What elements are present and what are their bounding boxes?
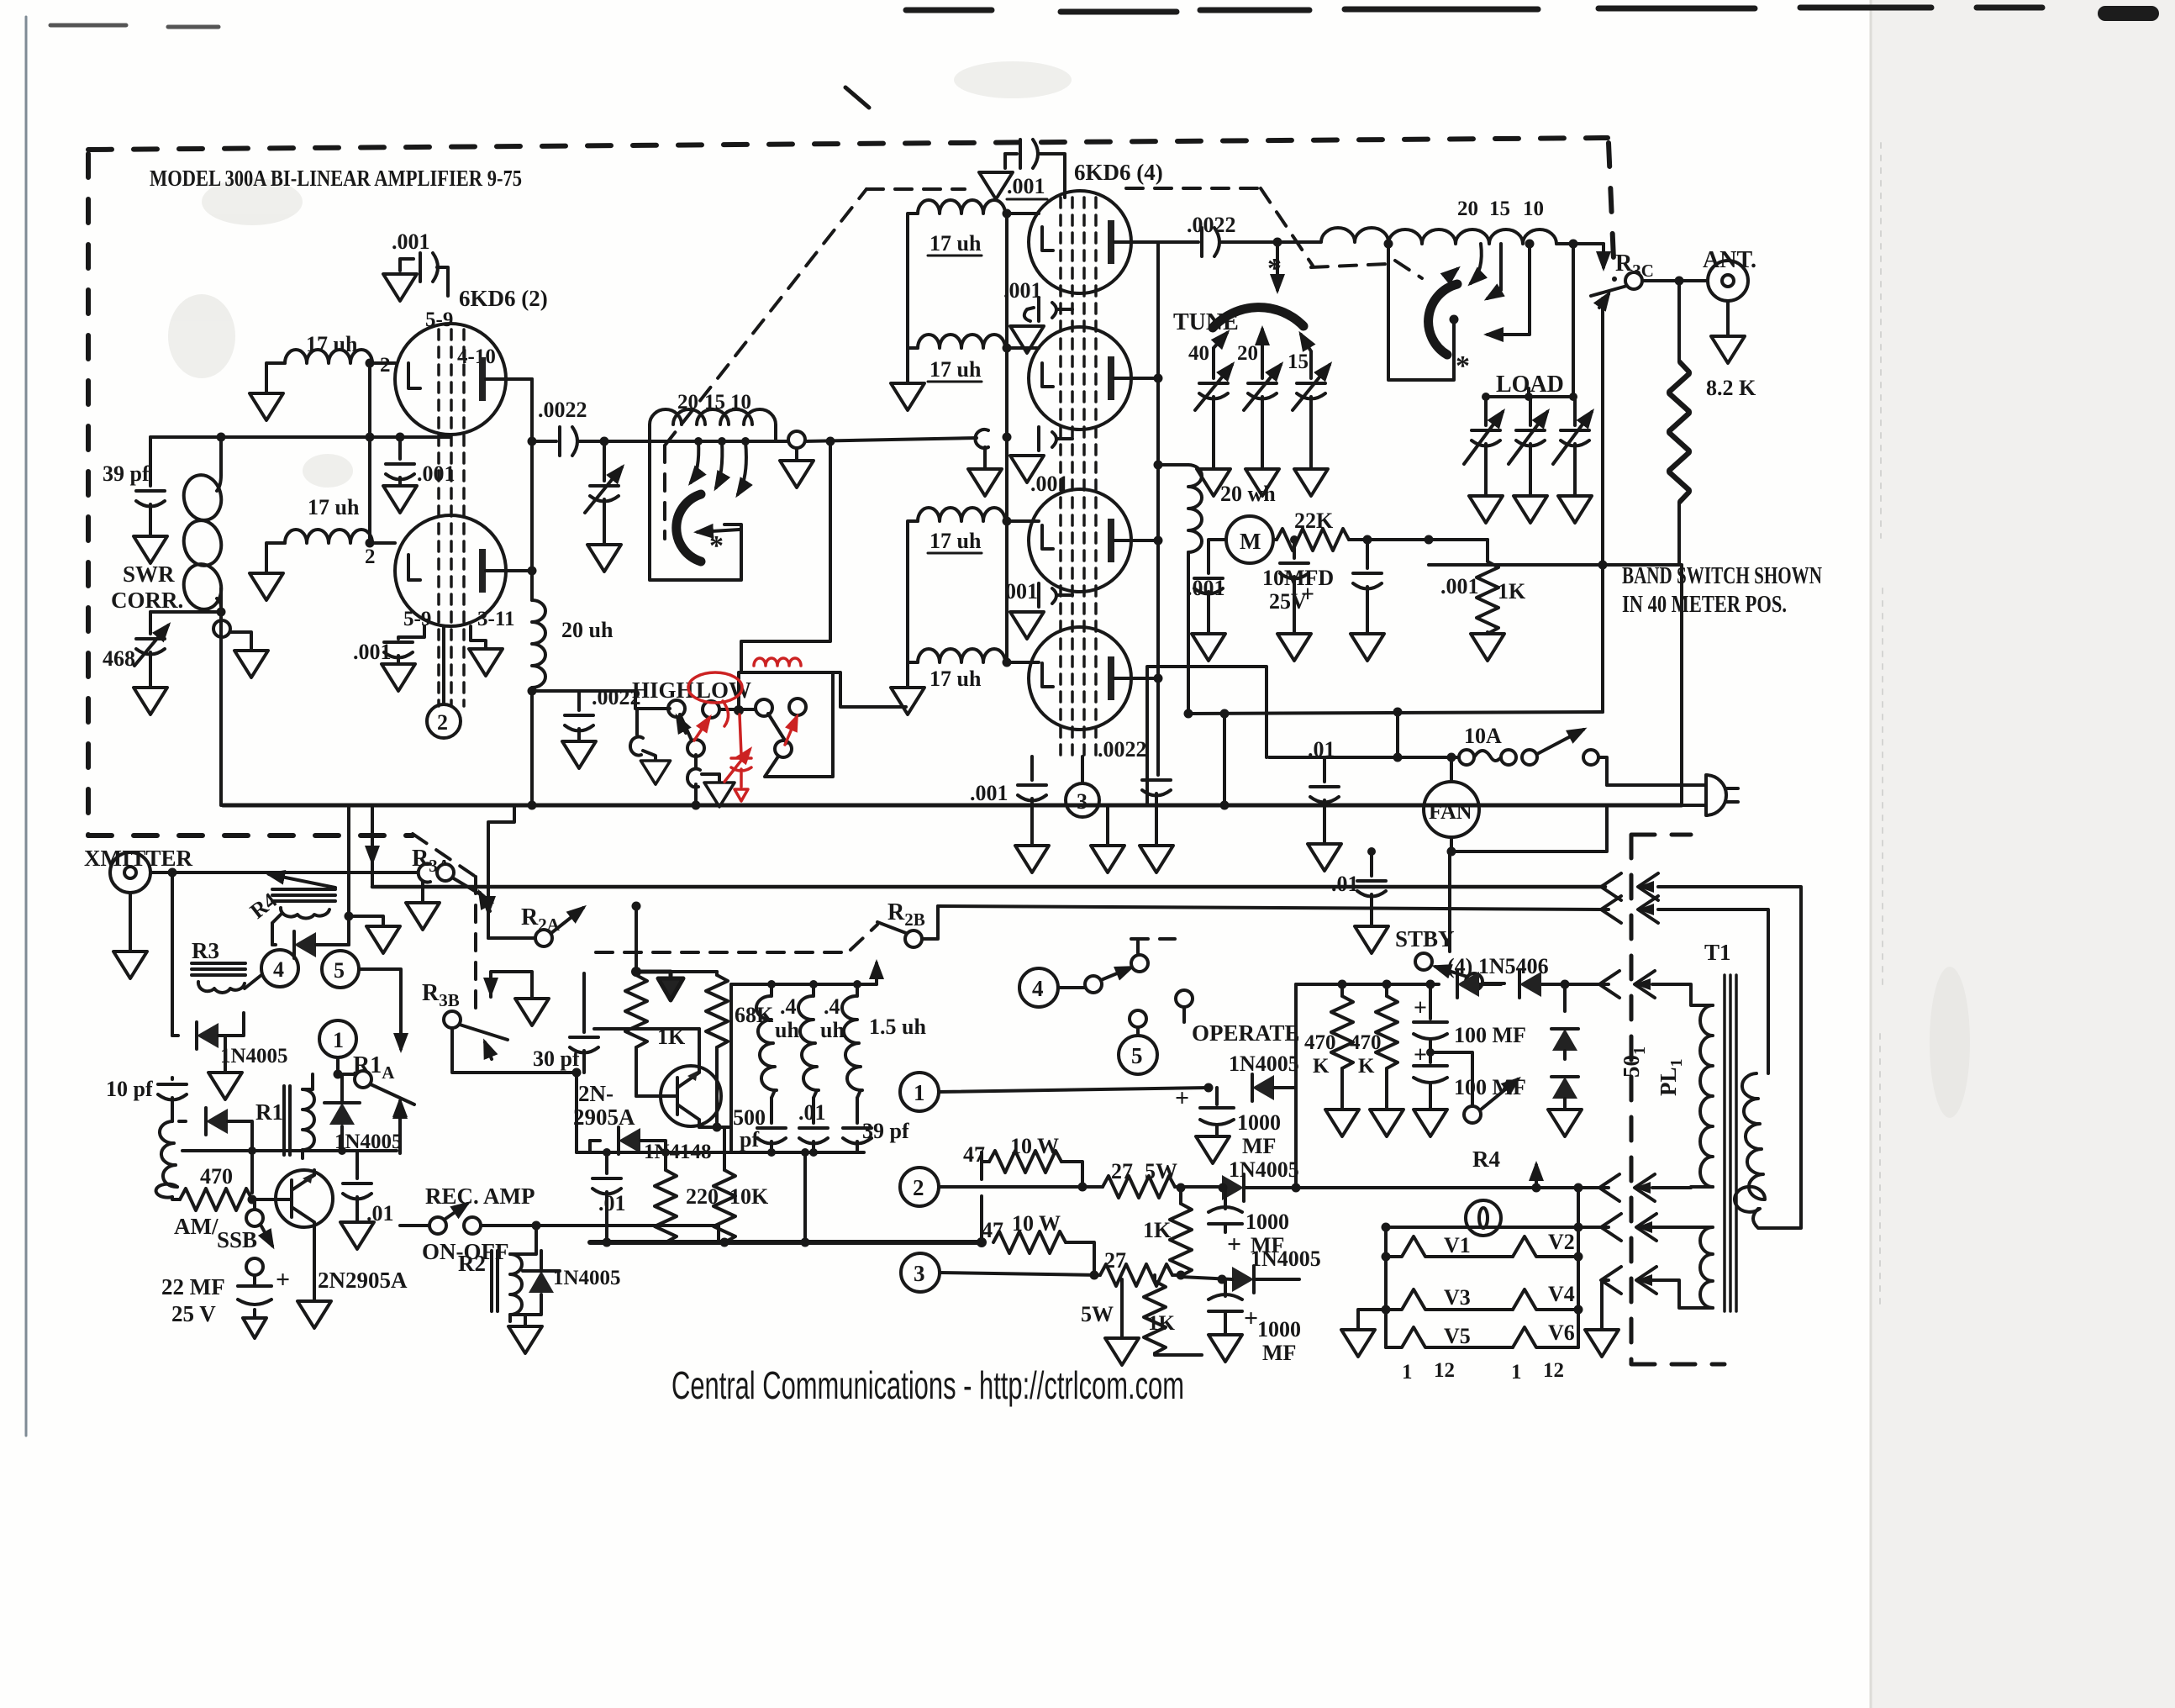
resistor 27 5W (line 3) (1081, 1248, 1181, 1326)
transistor 2N2905A (osc) (573, 1029, 721, 1130)
svg-text:3: 3 (1077, 789, 1087, 814)
pin circle 2 (socket) (900, 1168, 1082, 1206)
ground (.01 line b) (1355, 926, 1388, 953)
red annotation: arrow to contact4 (785, 717, 797, 745)
wiper output curl (687, 755, 719, 805)
SWR pot contact (213, 620, 251, 649)
svg-text:V4: V4 (1548, 1282, 1575, 1306)
ground (R4 node) (349, 916, 400, 953)
variable capacitor TUNE 20 (1244, 329, 1281, 467)
HV line to right (1188, 712, 1603, 714)
relay switch R2A (488, 908, 583, 946)
svg-text:1N4005: 1N4005 (220, 1045, 288, 1067)
T1 heater winding (1652, 1227, 1713, 1308)
capacitor .001 (screen bc) w/ hook (1030, 427, 1072, 496)
svg-text:3: 3 (914, 1261, 925, 1286)
pot R4 (bias adj) (1430, 1052, 1536, 1188)
svg-text:5W: 5W (1081, 1302, 1114, 1326)
capacitor 001 (screen cd) w/ hook (1005, 579, 1072, 607)
ground (curl NC) (640, 761, 670, 784)
svg-text:15: 15 (704, 391, 725, 414)
svg-text:PL1: PL1 (1656, 1058, 1686, 1096)
capacitor .0022 coupling (532, 398, 650, 456)
resistor 68K (636, 972, 774, 1127)
svg-text:22K: 22K (1294, 509, 1334, 533)
ground (.01 keyer) (340, 1222, 374, 1249)
svg-text:MODEL 300A BI-LINEAR AMPLIFIER: MODEL 300A BI-LINEAR AMPLIFIER 9-75 (150, 166, 522, 191)
ground (.001 mid) (383, 486, 417, 513)
LOAD bus (1486, 244, 1573, 397)
svg-text:BAND SWITCH SHOWN: BAND SWITCH SHOWN (1622, 563, 1822, 589)
tank rotor wiper arc (1429, 284, 1457, 355)
svg-text:.001: .001 (1440, 574, 1479, 598)
svg-text:1N4005: 1N4005 (1229, 1157, 1299, 1182)
resistor 27 5W (line 2) (1082, 1159, 1225, 1198)
HIGH contact (668, 700, 685, 717)
ground (screen cd) (1010, 612, 1044, 639)
ground (LOAD 1) (1469, 496, 1503, 523)
plate bus vertical x=633 (530, 379, 534, 600)
relay switch R3C (1591, 272, 1708, 308)
resistor 1K (line 2) (1143, 1188, 1192, 1276)
resistor 1K (line 3) (1144, 1275, 1202, 1355)
capacitor 100MF (b) (1414, 1042, 1526, 1108)
wire bracket to line A (371, 805, 374, 887)
svg-text:K: K (1358, 1055, 1375, 1078)
svg-text:100 MF: 100 MF (1454, 1075, 1526, 1099)
grid bus vertical (1005, 213, 1009, 662)
svg-text:M: M (1240, 529, 1261, 554)
ground (1000MF line1) (1196, 1136, 1230, 1163)
diode 1N5406 (b) (1519, 971, 1541, 998)
svg-text:MF: MF (1242, 1134, 1276, 1158)
svg-text:.0022: .0022 (538, 398, 587, 422)
wire 8.2K bottom row (1429, 565, 1682, 805)
svg-text:.0022: .0022 (1098, 737, 1147, 762)
pin circle 3 (tube col) (1066, 756, 1099, 817)
ground (.0022 plate col) (1140, 846, 1173, 872)
inductor 17uh (grid c) (908, 508, 1039, 553)
scan artifact: faint smudges (168, 61, 1970, 1118)
diode 1N4005 (R3) (172, 1013, 288, 1067)
ground (heater return) (1585, 1280, 1619, 1357)
ground (TUNE 20) (1245, 469, 1279, 496)
svg-text:V1: V1 (1444, 1233, 1471, 1257)
svg-text:5: 5 (334, 958, 345, 983)
tube V1b 6KD6 (395, 515, 532, 626)
meter M (1209, 516, 1273, 565)
svg-text:Central Communications - http:: Central Communications - http://ctrlcom.… (671, 1363, 1184, 1407)
svg-text:R3: R3 (192, 938, 219, 963)
ground (.01 line a) (1308, 844, 1341, 871)
variable capacitor (driver tune) (585, 441, 622, 543)
svg-text:001: 001 (1005, 579, 1038, 604)
HIGH/LOW switch box top (741, 672, 906, 707)
resistor 47 10W (upper) (963, 1134, 1082, 1187)
tube V2b (1029, 327, 1158, 430)
pin circle 1 (socket) (900, 1073, 1209, 1111)
svg-text:.01: .01 (1331, 872, 1359, 896)
svg-text:468: 468 (103, 646, 135, 671)
svg-text:17 uh: 17 uh (930, 357, 982, 382)
tube grid dashed columns (V1a/V1b) (439, 329, 464, 706)
heater bank right rail (1577, 1227, 1580, 1347)
fan motor (1424, 757, 1479, 851)
svg-text:2: 2 (913, 1175, 924, 1200)
ground (ANT) (1711, 336, 1745, 363)
svg-text:3-11: 3-11 (477, 608, 514, 630)
pin circle 3 (socket) (901, 1253, 1100, 1292)
svg-text:12: 12 (1543, 1359, 1564, 1382)
capacitor 39pf (103, 437, 165, 535)
contact 4 (789, 698, 806, 715)
long line A (antenna relay common) (372, 885, 1605, 889)
node dot grid1 (366, 359, 375, 368)
ground (screen ab) (1010, 326, 1044, 353)
svg-text:FAN: FAN (1429, 799, 1472, 824)
svg-text:1000: 1000 (1257, 1317, 1301, 1342)
scan artifact: stray diagonal near top (845, 87, 869, 108)
ground (1K meter) (1471, 634, 1504, 661)
diode 1N5406 (a) (1457, 971, 1479, 998)
svg-text:+: + (1227, 1231, 1241, 1258)
resistor 470 (172, 1164, 254, 1210)
wire bus to R2A common (488, 805, 514, 938)
tube V2c (1029, 489, 1158, 592)
svg-text:10 pf: 10 pf (106, 1077, 153, 1101)
drive line curl contact (975, 430, 988, 448)
resistor 8.2K (1668, 281, 1756, 565)
svg-text:1000: 1000 (1237, 1110, 1281, 1135)
svg-text:HIGH: HIGH (632, 677, 694, 703)
tank tap arrows (1471, 244, 1482, 283)
svg-text:1N4005: 1N4005 (334, 1131, 403, 1153)
resistor 1K (osc) (625, 973, 686, 1096)
resistor 47 10W (lower) (982, 1211, 1094, 1275)
ground (468) (134, 688, 167, 714)
plate bus vertical (1156, 242, 1160, 775)
chevron pair (heater b) (1601, 1267, 1656, 1294)
svg-text:10: 10 (730, 391, 751, 414)
ground (39pf) (134, 536, 167, 563)
scan artifact: top edge marks (50, 8, 2151, 27)
svg-text:17 uh: 17 uh (930, 667, 982, 691)
AM/SSB switch (174, 1199, 272, 1252)
ground (driver tune cap) (587, 545, 621, 572)
capacitor .001 (screen ab) w/ hook (1003, 278, 1072, 321)
svg-text:XMITTER: XMITTER (84, 846, 193, 871)
svg-text:uh: uh (820, 1018, 845, 1042)
ground (transistor emitter) (298, 1226, 331, 1328)
chevron connector pair (AC line b) (1601, 896, 1658, 923)
switch STBY/OPERATE (1415, 953, 1504, 990)
capacitor .01 (osc) (592, 1152, 626, 1242)
main bus wire y=958 (223, 804, 1682, 808)
variable capacitor 468 (103, 612, 168, 686)
svg-text:6KD6 (2): 6KD6 (2) (459, 286, 548, 311)
capacitor .001 (grid top) (392, 229, 448, 296)
diode (doubler b) (1551, 1077, 1578, 1108)
svg-text:2N2905A: 2N2905A (318, 1268, 408, 1293)
T1 core (1725, 975, 1736, 1311)
svg-text:1K: 1K (1143, 1218, 1172, 1242)
BNC connector ANT (1708, 261, 1748, 335)
capacitor .001 (meter) (1187, 565, 1225, 632)
tube V2d (1029, 627, 1158, 730)
svg-text:SWR: SWR (123, 561, 175, 587)
wire HV drop to bus (1223, 714, 1226, 805)
ground (1000MF line3) (1209, 1335, 1242, 1362)
svg-text:17 uh: 17 uh (930, 529, 982, 553)
svg-text:20: 20 (1457, 198, 1478, 220)
svg-text:STBY: STBY (1395, 926, 1455, 952)
capacitor .01 (line filter a) (1308, 737, 1339, 842)
svg-text:+: + (1301, 582, 1314, 608)
svg-text:.001: .001 (1007, 174, 1045, 198)
line R2B output (938, 906, 1609, 909)
scan artifact: right scanner margin (1871, 0, 2175, 1708)
ground (pin 3-11) (469, 626, 503, 676)
ground (17uh lower) (250, 573, 283, 600)
pin circle 5 (relay sw) (1119, 1010, 1157, 1074)
osc top rail (577, 1151, 864, 1154)
tank coil left half (1277, 228, 1388, 242)
svg-text:REC. AMP: REC. AMP (425, 1183, 535, 1209)
svg-text:+: + (1244, 1305, 1258, 1332)
relay coil R3 (192, 963, 261, 993)
wire tank right end down to HIGH/LOW (741, 441, 830, 672)
capacitor .01 (line filter b) (1331, 851, 1386, 925)
wire SWR to bus (219, 612, 223, 805)
T1 primary lead (1658, 909, 1768, 1073)
svg-text:+: + (276, 1266, 290, 1294)
pin circle 4 (261, 950, 298, 987)
capacitor 22MF (161, 1258, 290, 1338)
svg-text:*: * (1267, 253, 1282, 284)
tube V1a 6KD6 (395, 324, 532, 435)
relay switch R1A (338, 1071, 414, 1125)
diode 1N4005 (R4) (272, 915, 349, 958)
bold ground (osc supply) (636, 972, 683, 1000)
capacitor 100MF (a) (1414, 984, 1526, 1062)
dashed mech linkage left cage (413, 188, 1725, 1364)
wire osc row (182, 1149, 397, 1152)
svg-text:1N4005: 1N4005 (1251, 1247, 1321, 1271)
driver coil rotor enclosure (650, 441, 741, 580)
wire grid vertical x=440 (368, 363, 371, 543)
svg-text:15: 15 (1288, 351, 1309, 373)
svg-text:17 uh: 17 uh (306, 332, 358, 356)
ground (470K a) (1325, 1110, 1359, 1136)
svg-text:R3B: R3B (422, 980, 460, 1010)
svg-text:IN 40 METER POS.: IN 40 METER POS. (1622, 592, 1787, 618)
relay switch R2B (877, 906, 938, 947)
blade pivot 2 (768, 714, 792, 757)
svg-text:39 pf: 39 pf (103, 461, 150, 486)
svg-text:1N4005: 1N4005 (1229, 1052, 1299, 1076)
TUNE rotor arc (1213, 308, 1303, 328)
diode 1N4005 (R2) (510, 1251, 621, 1315)
wire XMITTER column (171, 872, 174, 1036)
red annotation: arrow to LOW (694, 718, 709, 741)
svg-text:.001: .001 (1003, 278, 1042, 303)
inductor 17uh (grid a) (908, 200, 1039, 256)
wire + ground (grid pair ab) (891, 220, 924, 410)
svg-text:5-9: 5-9 (403, 608, 431, 630)
capacitor .0022 (plate col) (1098, 737, 1171, 844)
svg-text:1N4005: 1N4005 (553, 1267, 621, 1289)
resistor 10K (714, 1127, 769, 1242)
switch contact (4) (1085, 941, 1148, 993)
R2A NC arm to ground (491, 972, 549, 1025)
svg-text:2: 2 (437, 710, 448, 735)
svg-text:R4: R4 (1472, 1147, 1500, 1172)
svg-text:20 uh: 20 uh (561, 618, 614, 642)
T1 primary winding (1735, 1073, 1765, 1212)
chevron connector pair (AC line) (1601, 873, 1801, 1228)
capacitor 10MFD 25V (1262, 540, 1334, 632)
ground (heater bank left) (1341, 1310, 1386, 1357)
capacitor 30pf (533, 973, 598, 1073)
diode 1N4005 (line2) (1222, 1157, 1299, 1201)
wire top rail (1296, 1186, 1609, 1189)
ground (470K b) (1370, 1110, 1403, 1136)
pin circle 4 (relay sw) (1019, 968, 1085, 1007)
chevron pair (HV secondary) (1599, 971, 1655, 998)
svg-text:T1: T1 (1704, 940, 1731, 965)
svg-text:.4: .4 (780, 994, 797, 1019)
capacitor 10pf (106, 1077, 187, 1121)
ground (under .001 top cap) (383, 274, 417, 301)
relay switch R3B (444, 1011, 508, 1059)
pilot lamp (1466, 1200, 1501, 1236)
variable capacitor LOAD 3 (1553, 397, 1592, 494)
wire 47 feed (980, 1152, 983, 1242)
pin circle 5 (322, 951, 401, 1049)
lamp rail (1386, 1188, 1609, 1227)
relay coil R4 (245, 874, 335, 924)
wire 30pf node to emitter (594, 1027, 699, 1031)
node dot grid2 (366, 539, 375, 548)
inductor 20wh plate choke (1158, 465, 1276, 714)
capacitor .01 (keyer) (343, 1151, 394, 1226)
ground (doubler) (1548, 1110, 1582, 1136)
svg-text:.001: .001 (1030, 472, 1069, 496)
capacitor .01 (coil) (798, 1098, 828, 1152)
svg-text:.001: .001 (970, 781, 1009, 805)
svg-text:*: * (1456, 351, 1470, 382)
transistor 2N2905A (keyer) (254, 1170, 333, 1227)
svg-text:CORR.: CORR. (111, 588, 183, 613)
relay R2 core and coil (458, 1226, 536, 1321)
svg-text:.01: .01 (598, 1191, 626, 1215)
ground (.001 cathode) (382, 664, 415, 691)
heater row V1 V2 (1386, 1230, 1578, 1257)
svg-text:1000: 1000 (1245, 1210, 1289, 1234)
svg-text:10: 10 (1523, 198, 1544, 220)
contact OPERATE (1176, 990, 1193, 1022)
capacitor .001 (cathode col) (970, 756, 1046, 844)
ground (LOAD 3) (1558, 496, 1592, 523)
ground (drive curl) (968, 447, 1002, 496)
variable capacitor TUNE 15 (1293, 335, 1330, 467)
dashed linkage arrow into TUNE (1276, 245, 1279, 290)
svg-text:1: 1 (1402, 1361, 1413, 1384)
red annotation: ellipse around LOW (688, 658, 801, 801)
svg-text:K: K (1313, 1055, 1330, 1078)
svg-text:1: 1 (333, 1028, 344, 1052)
wire rectifier junction column (1294, 984, 1298, 1188)
svg-text:(4) 1N5406: (4) 1N5406 (1447, 954, 1549, 978)
relay R1 core and coil (255, 1074, 314, 1158)
rotor contact curl (788, 431, 805, 459)
svg-text:1: 1 (914, 1080, 925, 1105)
ground (100MF) (1414, 1110, 1447, 1136)
SWR pickup coil (219, 437, 223, 475)
ground (rotor contact) (780, 461, 814, 488)
ground (screen bc) (1010, 456, 1044, 482)
driver rotor arrow (698, 530, 740, 532)
dashed enclosure big box (88, 138, 1614, 836)
scan artifact: left page edge (25, 17, 28, 1436)
ground (R3 diode) (208, 1036, 242, 1099)
svg-text:15: 15 (1489, 198, 1510, 220)
svg-text:20: 20 (677, 391, 698, 414)
svg-text:68K: 68K (735, 1003, 774, 1027)
svg-text:.0022: .0022 (1187, 213, 1236, 237)
ground (TUNE 15) (1294, 469, 1328, 496)
variable capacitor LOAD 1 (1464, 397, 1503, 494)
svg-text:10A: 10A (1464, 724, 1502, 748)
pin circle 2 (427, 626, 461, 738)
wire + ground (grid pair cd) (891, 528, 924, 714)
BNC connector XMITTER (110, 852, 418, 950)
curl contact (HIGH NC) (630, 709, 670, 759)
svg-text:+: + (1414, 995, 1427, 1021)
svg-text:22 MF: 22 MF (161, 1274, 225, 1299)
svg-text:.4: .4 (824, 994, 840, 1019)
svg-text:AM/: AM/ (174, 1214, 219, 1239)
T1 secondary HV winding (1652, 984, 1713, 1005)
diode 1N4005 (R1) (324, 1074, 403, 1153)
AC plug (1607, 775, 1738, 815)
driver rotor wiper arc (677, 494, 701, 561)
switch box (low-power tap) (739, 672, 833, 777)
wire R2B common down to 1K (635, 906, 638, 975)
svg-text:*: * (709, 530, 724, 561)
ground (R2) (508, 1315, 542, 1353)
red annotation: coil doodle (754, 658, 801, 666)
ground (XMITTER) (113, 952, 147, 978)
svg-text:.001: .001 (392, 229, 430, 254)
svg-text:1: 1 (1511, 1361, 1522, 1384)
svg-text:V6: V6 (1548, 1321, 1575, 1345)
driver tank coil 20/15/10 (650, 391, 776, 441)
svg-text:V2: V2 (1548, 1230, 1575, 1254)
svg-text:17 uh: 17 uh (930, 231, 982, 256)
inductor .4uh (b) (798, 984, 845, 1098)
wire 5W tap to ground (1105, 1279, 1139, 1365)
svg-text:8.2 K: 8.2 K (1706, 376, 1756, 400)
pin circle 1 (319, 1020, 356, 1074)
red annotation: added variable cap (731, 714, 751, 787)
svg-text:V5: V5 (1444, 1324, 1471, 1348)
tube V2a (1029, 191, 1158, 293)
blade 1 HIGH (677, 714, 704, 756)
inductor 17uh (top grid) (266, 332, 395, 392)
ground (.001 meter) (1192, 634, 1225, 661)
svg-text:4: 4 (273, 957, 284, 982)
